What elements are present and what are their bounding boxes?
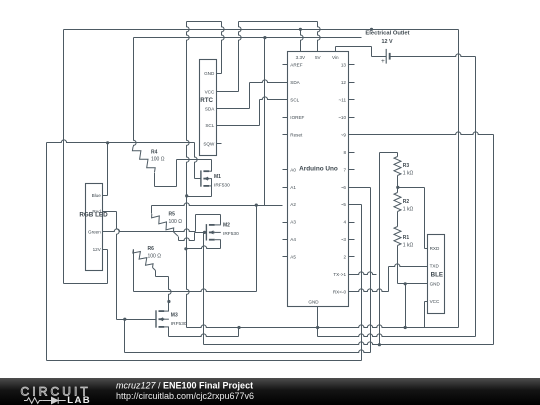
svg-text:IRF530: IRF530 xyxy=(171,321,187,327)
svg-text:SCL: SCL xyxy=(290,98,299,103)
svg-text:Arduino Uno: Arduino Uno xyxy=(299,165,338,172)
svg-text:~5: ~5 xyxy=(341,202,347,207)
svg-text:IRF530: IRF530 xyxy=(214,183,230,189)
svg-text:M2: M2 xyxy=(223,223,230,229)
svg-text:RXD: RXD xyxy=(430,246,440,251)
svg-text:A4: A4 xyxy=(290,237,296,242)
svg-text:VCC: VCC xyxy=(205,89,215,94)
svg-text:12V: 12V xyxy=(93,247,102,252)
svg-text:5V: 5V xyxy=(315,55,322,60)
svg-text:R5: R5 xyxy=(169,212,176,218)
svg-text:GND: GND xyxy=(204,71,215,76)
svg-text:SDA: SDA xyxy=(290,80,300,85)
svg-text:mcruz127 / ENE100 Final Projec: mcruz127 / ENE100 Final Project xyxy=(116,381,253,391)
svg-text:SDA: SDA xyxy=(205,107,215,112)
svg-text:TX->1: TX->1 xyxy=(333,272,346,277)
svg-text:AREF: AREF xyxy=(290,63,302,68)
svg-text:RX<-0: RX<-0 xyxy=(333,290,347,295)
svg-text:A1: A1 xyxy=(290,185,296,190)
svg-text:GND: GND xyxy=(308,300,319,305)
svg-text:RGB LED: RGB LED xyxy=(79,212,108,219)
svg-text:12: 12 xyxy=(341,80,347,85)
svg-text:Blue: Blue xyxy=(92,193,102,198)
svg-text:3.3V: 3.3V xyxy=(296,55,306,60)
svg-text:8: 8 xyxy=(343,150,346,155)
svg-text:VCC: VCC xyxy=(430,299,440,304)
svg-text:A0: A0 xyxy=(290,167,296,172)
svg-text:12 V: 12 V xyxy=(381,39,392,45)
svg-text:R3: R3 xyxy=(403,163,410,169)
svg-text:~3: ~3 xyxy=(341,237,347,242)
svg-text:SQW: SQW xyxy=(203,142,215,147)
svg-text:7: 7 xyxy=(343,167,346,172)
svg-text:GND: GND xyxy=(430,281,441,286)
svg-text:100 Ω: 100 Ω xyxy=(148,253,162,259)
svg-text:TXD: TXD xyxy=(430,264,440,269)
svg-text:~9: ~9 xyxy=(341,132,347,137)
svg-text:Vin: Vin xyxy=(332,55,339,60)
svg-text:~10: ~10 xyxy=(338,115,346,120)
svg-text:R4: R4 xyxy=(151,149,158,155)
svg-text:Electrical Outlet: Electrical Outlet xyxy=(365,31,409,37)
svg-text:~11: ~11 xyxy=(339,98,347,103)
svg-text:R1: R1 xyxy=(403,235,410,241)
svg-text:IOREF: IOREF xyxy=(290,115,304,120)
svg-text:Green: Green xyxy=(88,229,101,234)
svg-text:~6: ~6 xyxy=(341,185,347,190)
svg-text:RTC: RTC xyxy=(200,97,213,104)
svg-text:1 kΩ: 1 kΩ xyxy=(403,243,414,249)
svg-text:1 kΩ: 1 kΩ xyxy=(403,207,414,213)
svg-text:+: + xyxy=(381,58,385,65)
svg-text:4: 4 xyxy=(343,220,346,225)
svg-text:http://circuitlab.com/cjc2rxpu: http://circuitlab.com/cjc2rxpu677v6 xyxy=(116,391,254,401)
svg-text:SCL: SCL xyxy=(205,123,214,128)
svg-text:A2: A2 xyxy=(290,202,296,207)
svg-text:100 Ω: 100 Ω xyxy=(151,157,165,163)
svg-text:100 Ω: 100 Ω xyxy=(169,219,183,225)
svg-text:13: 13 xyxy=(341,63,347,68)
svg-text:BLE: BLE xyxy=(431,271,443,278)
svg-text:Reset: Reset xyxy=(290,132,303,137)
svg-text:R6: R6 xyxy=(148,246,155,252)
svg-text:2: 2 xyxy=(343,255,346,260)
svg-text:R2: R2 xyxy=(403,199,410,205)
svg-text:A3: A3 xyxy=(290,220,296,225)
svg-text:LAB: LAB xyxy=(67,395,91,405)
svg-text:M1: M1 xyxy=(214,174,221,180)
svg-text:IRF530: IRF530 xyxy=(223,231,239,237)
svg-text:1 kΩ: 1 kΩ xyxy=(403,171,414,177)
svg-text:A5: A5 xyxy=(290,255,296,260)
svg-text:M3: M3 xyxy=(171,313,178,319)
